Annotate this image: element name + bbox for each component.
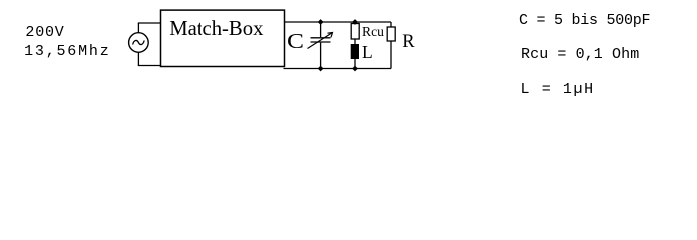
capacitor C variable arrow — [308, 33, 333, 49]
inductor L lead bottom — [354, 59, 356, 69]
resistor label R — [402, 32, 414, 53]
node dot Rcu branch top — [352, 19, 358, 25]
resistor R lead bottom — [390, 41, 392, 69]
inductor L body — [351, 44, 359, 59]
capacitor C top lead — [320, 22, 322, 37]
node dot capacitor bottom — [318, 66, 324, 72]
capacitor C upper plate — [311, 37, 331, 39]
wire top-right (Match-Box to R) — [285, 21, 392, 23]
capacitor label C — [287, 29, 304, 54]
value line Rcu = 0,1 Ohm — [521, 46, 639, 63]
resistor R lead top — [390, 22, 392, 27]
wire top-left (source to Match-Box) — [138, 22, 161, 24]
resistor Rcu body — [351, 24, 359, 40]
node dot capacitor top — [318, 19, 324, 25]
source value label 13,56Mhz — [24, 43, 110, 60]
resistor label Rcu — [362, 24, 384, 40]
voltage source V1 circle — [129, 33, 149, 53]
node dot Rcu branch bottom — [352, 66, 358, 72]
Match-Box label — [169, 18, 263, 41]
inductor label L — [362, 42, 373, 63]
resistor Rcu lead top — [354, 22, 356, 24]
resistor R body — [387, 27, 395, 41]
capacitor C lower plate — [311, 41, 331, 43]
voltage source V1 sine symbol — [133, 40, 145, 44]
voltage source V1 top lead — [137, 23, 139, 33]
wire Rcu to L — [354, 39, 356, 44]
voltage source V1 bottom lead — [137, 52, 139, 65]
source value label 200V — [25, 24, 64, 41]
Match-Box block outline — [161, 10, 285, 66]
capacitor C arrowhead — [328, 33, 333, 38]
value line L = 1uH — [521, 81, 595, 98]
wire bottom-left (source to Match-Box) — [138, 65, 161, 67]
value line C = 5 bis 500pF — [519, 12, 650, 29]
capacitor C bottom lead — [320, 43, 322, 69]
wire bottom-right (Match-Box to R) — [284, 68, 392, 70]
